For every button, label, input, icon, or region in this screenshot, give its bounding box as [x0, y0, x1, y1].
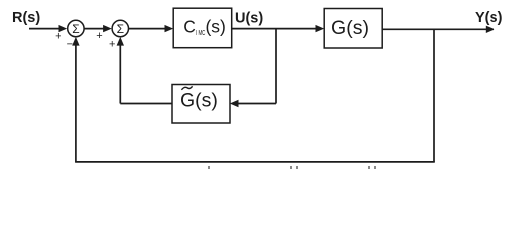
wire S2 to controller block — [129, 28, 167, 30]
svg-text:Σ: Σ — [72, 22, 79, 36]
svg-text:CI MC(s): CI MC(s) — [183, 16, 226, 36]
svg-text:+: + — [109, 39, 115, 51]
wire feedback up into S1 — [75, 42, 77, 162]
caption letter tops cropped at bottom edge — [208, 166, 376, 169]
block U2 G(s) plant — [324, 9, 382, 49]
svg-text:Σ: Σ — [117, 22, 124, 36]
wire branch into model block input — [237, 103, 276, 105]
wire R(s) to summing junction S1 — [29, 28, 60, 30]
svg-text:−: − — [67, 39, 73, 51]
svg-text:+: + — [55, 31, 61, 43]
svg-text:G(s): G(s) — [180, 89, 218, 111]
svg-text:R(s): R(s) — [12, 10, 40, 26]
block U1 C_IMC(s) controller — [173, 8, 232, 48]
wire S1 to summing junction S2 — [84, 28, 104, 30]
junction dot branch at U(s) node — [275, 29, 277, 104]
svg-text:G(s): G(s) — [331, 17, 369, 39]
wire controller to plant block — [232, 28, 317, 30]
svg-text:Y(s): Y(s) — [475, 10, 503, 26]
summing junction S2 — [112, 20, 128, 36]
svg-text:+: + — [96, 30, 102, 42]
wire model output to left — [120, 103, 172, 105]
svg-text:U(s): U(s) — [235, 10, 263, 26]
wire output branch down — [433, 29, 435, 162]
summing junction S1 — [68, 20, 84, 36]
wire bottom feedback run — [75, 161, 435, 163]
wire plant to output Y(s) — [382, 28, 494, 30]
block U3 Gtilde(s) internal model — [172, 85, 230, 124]
wire model feedback up into S2 — [119, 42, 121, 104]
